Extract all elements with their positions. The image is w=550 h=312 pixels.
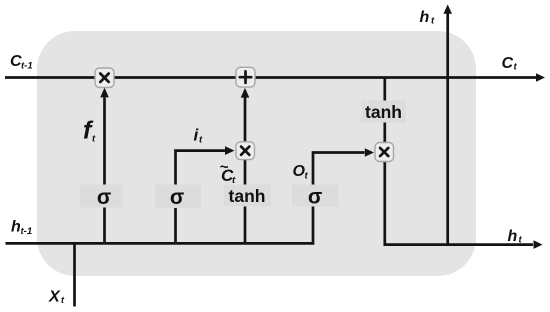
svg-text:h: h	[420, 9, 430, 26]
svg-text:X: X	[48, 289, 61, 306]
svg-text:~: ~	[220, 159, 229, 176]
svg-text:h: h	[508, 228, 518, 245]
svg-text:C: C	[502, 55, 514, 72]
svg-text:σ: σ	[170, 186, 184, 209]
svg-text:h: h	[11, 219, 21, 236]
svg-text:t: t	[61, 295, 65, 305]
svg-text:σ: σ	[308, 186, 322, 209]
svg-text:σ: σ	[97, 186, 111, 209]
svg-text:t: t	[514, 62, 518, 73]
svg-text:t-1: t-1	[21, 61, 33, 72]
svg-text:t: t	[431, 16, 435, 27]
svg-text:t-1: t-1	[21, 226, 33, 237]
svg-text:tanh: tanh	[229, 186, 266, 206]
svg-text:tanh: tanh	[365, 102, 402, 122]
